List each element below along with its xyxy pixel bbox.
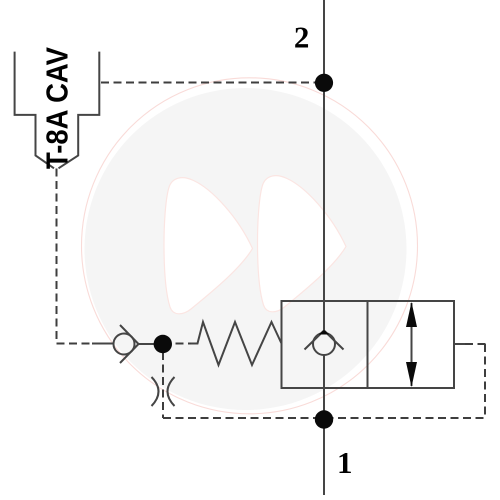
svg-text:T-8A CAV: T-8A CAV — [41, 46, 75, 169]
svg-text:1: 1 — [337, 445, 353, 480]
svg-text:2: 2 — [294, 20, 310, 55]
